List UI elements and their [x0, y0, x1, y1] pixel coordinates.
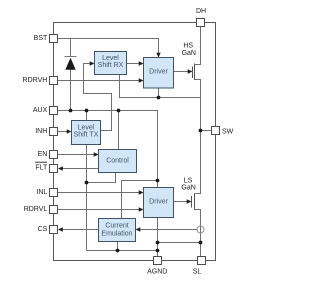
svg-text:SW: SW: [222, 128, 234, 135]
svg-text:Level: Level: [102, 55, 119, 62]
pin SL: [198, 257, 206, 265]
wire control bottom stub to ground branch: [87, 173, 116, 183]
current sense circle: [197, 226, 204, 233]
svg-text:LS: LS: [184, 177, 193, 184]
wire LS driver bottom stub to AGND: [157, 218, 159, 257]
svg-text:DH: DH: [196, 8, 206, 15]
arrow into LS driver (RDRVL): [139, 207, 144, 211]
svg-text:SL: SL: [193, 269, 202, 276]
pin AUX: [50, 107, 58, 115]
wire ground return rail: [87, 250, 158, 252]
wire HS drain stub to DH: [195, 27, 201, 65]
block level shift RX: [95, 52, 127, 75]
svg-text:EN: EN: [38, 151, 48, 158]
wire diode branch upper: [70, 39, 72, 57]
pin DH: [197, 19, 205, 27]
wire LS source stub down to SL: [195, 210, 201, 257]
node LS source: [199, 241, 203, 245]
diode D1 bootstrap: [65, 57, 77, 70]
svg-text:Current: Current: [105, 222, 128, 229]
svg-text:Driver: Driver: [149, 68, 168, 75]
svg-text:AGND: AGND: [147, 269, 167, 276]
wire RDRVL to LS driver: [58, 209, 140, 211]
pin CS: [50, 226, 58, 234]
wire INL to LS driver: [58, 192, 140, 194]
svg-text:Control: Control: [106, 158, 129, 165]
wire HS domain rail (RX bottom to HS source): [120, 75, 201, 98]
wire diode branch lower: [70, 70, 72, 111]
wire INH to level shift TX: [58, 131, 68, 133]
arrow into HS driver top: [156, 53, 160, 58]
pin BST: [50, 35, 58, 43]
svg-text:AUX: AUX: [33, 107, 48, 114]
arrow into CS pin: [58, 227, 63, 231]
transistor LS GaN: [191, 196, 193, 208]
node control top: [117, 109, 121, 113]
wire FLT from control: [62, 168, 99, 170]
arrow into LS GaN gate: [187, 199, 192, 203]
svg-text:CS: CS: [38, 226, 48, 233]
block HS driver U1: [144, 58, 174, 89]
arrow into HS GaN gate: [188, 69, 193, 73]
svg-text:INH: INH: [35, 128, 47, 135]
wire BST rail to HS driver top: [58, 39, 159, 54]
svg-text:FLT: FLT: [35, 165, 48, 172]
wire AUX to level shift TX top: [86, 111, 88, 121]
svg-text:Driver: Driver: [149, 199, 168, 206]
svg-text:GaN: GaN: [181, 185, 195, 192]
pin AGND: [154, 257, 162, 265]
svg-text:RDRVL: RDRVL: [24, 206, 48, 213]
block LS driver U2: [144, 188, 174, 218]
block control: [99, 150, 137, 173]
wire AUX rail to LS driver top: [58, 111, 158, 188]
wire current emulation to CS: [62, 229, 99, 231]
node driver gnd left: [156, 241, 160, 245]
svg-text:Shift RX: Shift RX: [98, 62, 124, 69]
arrow into HS driver (RDRVH): [139, 78, 144, 82]
arrow into level shift RX: [90, 61, 95, 65]
pin EN: [50, 151, 58, 159]
pin FLT: [50, 165, 58, 173]
wire SW node to SW pin: [201, 130, 212, 132]
pin RDRVH: [50, 77, 58, 85]
wire level shift TX ground (line B): [86, 145, 88, 251]
wire LS source node to driver ground: [158, 242, 201, 244]
pin RDRVL: [50, 206, 58, 214]
node TX top: [85, 109, 89, 113]
svg-text:BST: BST: [34, 35, 48, 42]
wire EN to control: [58, 154, 95, 156]
arrow into control: [94, 152, 99, 156]
node gnd rail: [156, 249, 160, 253]
wire AUX to control top: [118, 111, 120, 150]
wire level shift TX output zigzag to RX input: [84, 64, 112, 131]
arrow into FLT pin: [58, 166, 63, 170]
node diode-AUX: [69, 109, 73, 113]
arrow into current emulation right: [136, 227, 141, 231]
wire current emulation bottom stub: [117, 242, 119, 251]
IC outline border: [54, 23, 216, 261]
svg-text:RDRVH: RDRVH: [23, 77, 48, 84]
node SW: [199, 129, 203, 133]
transistor HS GaN: [192, 67, 194, 79]
wire HS driver bottom stub: [158, 88, 160, 98]
svg-text:HS: HS: [183, 43, 193, 50]
svg-text:Emulation: Emulation: [101, 230, 132, 237]
pin INL: [50, 189, 58, 197]
svg-text:GaN: GaN: [182, 50, 196, 57]
wire RDRVH to HS driver: [58, 80, 140, 82]
pin SW: [212, 127, 220, 135]
block level shift TX: [72, 121, 101, 145]
node line B branch: [85, 181, 89, 185]
wire LS driver output to gate: [174, 201, 188, 203]
node HS rail: [157, 96, 161, 100]
block current emulation: [99, 219, 136, 242]
wire current emulation top to LS supply node: [122, 181, 158, 219]
arrow into LS driver (INL): [139, 190, 144, 194]
node LS supply: [156, 179, 160, 183]
svg-text:Level: Level: [78, 124, 95, 131]
wire sense circle to current emulation: [141, 229, 198, 231]
node CE bottom: [116, 249, 120, 253]
svg-text:Shift TX: Shift TX: [74, 132, 99, 139]
svg-text:INL: INL: [36, 189, 47, 196]
wire RX to HS driver: [127, 63, 140, 65]
wire HS driver output to gate: [174, 71, 189, 73]
arrow into HS driver (RX): [139, 61, 144, 65]
arrow into level shift TX: [67, 129, 72, 133]
wire HS source stub down through SW to LS drain: [195, 80, 201, 194]
pin INH: [50, 128, 58, 136]
